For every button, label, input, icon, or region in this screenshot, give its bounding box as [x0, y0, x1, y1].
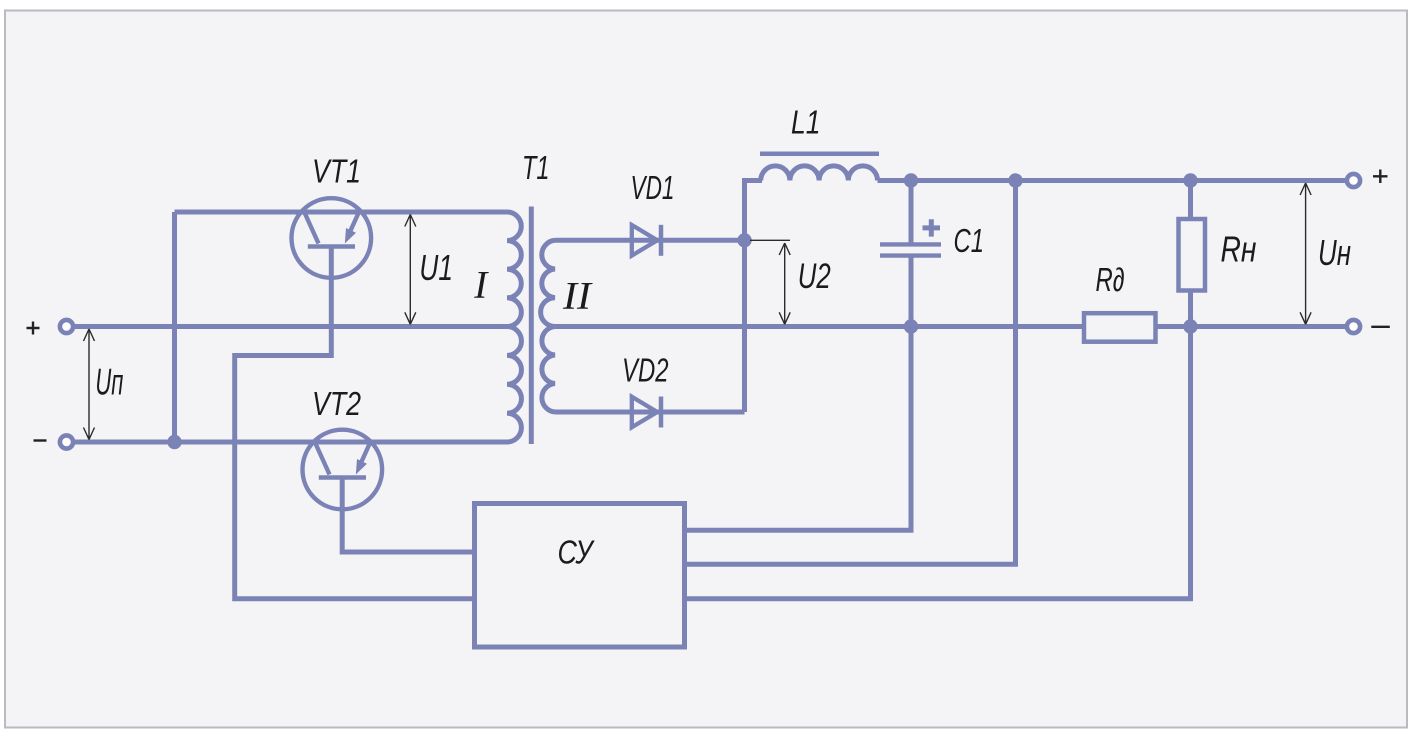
capacitor C1 top plate — [880, 242, 941, 246]
transistor VT2 emitter slant — [316, 444, 330, 475]
node: L1 output / C1 junction — [904, 173, 918, 187]
svg-text:I: I — [473, 264, 489, 307]
terminal: - input — [60, 435, 73, 448]
transistor VT1 base bar — [308, 244, 355, 249]
output - sign — [1371, 326, 1390, 328]
svg-text:T1: T1 — [522, 149, 550, 186]
svg-text:Uп: Uп — [95, 362, 123, 403]
svg-text:R∂: R∂ — [1096, 261, 1125, 298]
svg-text:VD1: VD1 — [631, 169, 675, 206]
dimension U2 arrow — [779, 243, 790, 324]
wire: top output rail from L1 to + output — [878, 178, 1349, 183]
transformer T1 primary winding upper — [507, 212, 521, 327]
diode VD2 cathode bar — [659, 397, 664, 428]
node: - rail / VT1 riser junction — [167, 435, 181, 449]
svg-text:C1: C1 — [954, 222, 985, 259]
capacitor C1 bottom plate — [880, 253, 941, 257]
dimension U1 arrow — [405, 215, 416, 325]
svg-text:U2: U2 — [798, 257, 831, 296]
svg-text:СУ: СУ — [558, 534, 595, 571]
transistor VT2 base bar — [319, 475, 366, 480]
node: VD1 cathode junction — [737, 233, 751, 247]
wire: feedback riser x=1015.5 from top rail to CY — [687, 181, 1016, 565]
diode VD1 triangle — [632, 225, 658, 256]
node: centre rail Rn junction — [1183, 319, 1197, 333]
transformer T1 primary winding lower — [507, 327, 521, 443]
svg-text:L1: L1 — [791, 104, 821, 141]
inductor L1 winding — [761, 166, 878, 181]
wire: centre output rail from secondary tap to - output — [555, 324, 1348, 329]
control unit CY box — [475, 504, 685, 648]
node: centre rail C1 junction — [904, 319, 918, 333]
transistor VT1 circle — [292, 198, 372, 278]
svg-text:U1: U1 — [419, 247, 453, 288]
inductor L1 core bar — [760, 152, 879, 157]
input - sign — [34, 439, 47, 441]
svg-text:Rн: Rн — [1221, 229, 1257, 270]
wire: VT2 base route to CY box — [342, 479, 472, 552]
svg-text:VT1: VT1 — [312, 153, 361, 190]
diode VD1 cathode bar — [659, 225, 664, 256]
transistor VT2 arrow head — [356, 459, 367, 475]
terminal: - output — [1347, 320, 1360, 333]
wire: secondary bottom to VD2 — [555, 410, 745, 415]
wire: C1 top lead — [909, 181, 914, 243]
capacitor C1 polarity plus — [923, 219, 941, 236]
transistor VT2 circle — [303, 430, 383, 510]
resistor Rd — [1084, 313, 1156, 342]
wire: C1 bottom lead down and left to CY — [687, 258, 911, 531]
wire: VT1 base route to CY box — [235, 248, 472, 599]
transistor VT1 arrow head — [345, 228, 356, 244]
terminal: + output — [1347, 174, 1360, 187]
wire: VT1 collector bus y=212 — [175, 210, 508, 215]
svg-text:Uн: Uн — [1318, 232, 1351, 273]
transistor VT1 emitter slant — [305, 213, 319, 244]
transformer T1 secondary winding lower — [542, 327, 555, 413]
dimension Uh arrow — [1300, 183, 1311, 324]
wire: left vertical from VT1 bus down to - rail — [172, 212, 177, 442]
wire: secondary top to VD1 — [555, 238, 745, 243]
dimension Un arrow — [84, 329, 95, 440]
transistor VT2 collector slant — [360, 444, 370, 465]
wire: - input rail to transformer primary bottom — [70, 440, 507, 445]
node: top rail Rn junction — [1183, 173, 1197, 187]
wire: VD2 cathode riser up to L1 input — [745, 181, 763, 413]
svg-text:VD2: VD2 — [622, 352, 669, 389]
node: top rail feedback junction — [1008, 173, 1022, 187]
wire: load branch x=1190.5 from top rail through Rn to CY — [687, 181, 1191, 599]
diode VD2 triangle — [632, 397, 658, 428]
svg-text:VT2: VT2 — [312, 385, 361, 422]
dimension U2 extension line — [750, 239, 790, 241]
svg-text:II: II — [562, 275, 593, 318]
transformer T1 core — [529, 207, 534, 445]
wire: + input rail to transformer primary centre tap — [70, 324, 507, 329]
transistor VT1 collector slant — [349, 213, 359, 234]
resistor Rn — [1179, 219, 1206, 291]
transformer T1 secondary winding upper — [541, 240, 555, 326]
terminal: + input — [60, 320, 73, 333]
input + sign — [27, 322, 40, 335]
output + sign — [1373, 170, 1388, 184]
